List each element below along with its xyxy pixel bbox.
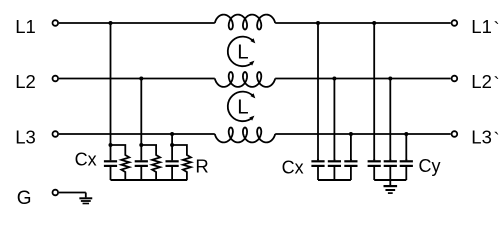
terminal L2 input (open circle) — [53, 76, 59, 82]
wire L1 right segment — [275, 22, 451, 24]
wire L2 right segment — [275, 78, 451, 80]
wire tap from L1 to Cy cap 1 — [373, 23, 375, 160]
capacitor Cx1 (right group) — [317, 159, 319, 160]
svg-text:L: L — [237, 96, 248, 119]
svg-text:Cx: Cx — [282, 157, 304, 177]
wire tap from L2 to Cy cap 2 — [389, 79, 391, 161]
inductor L (line L1 winding) (coil, 4 humps) — [215, 15, 275, 30]
wire tap from L2 to RC node 2 — [140, 79, 142, 146]
svg-text:L3`: L3` — [471, 126, 499, 149]
wire L2 left segment — [59, 78, 215, 80]
node RC node 1 (junction dot) — [109, 143, 113, 147]
capacitor Cy3 — [405, 159, 407, 160]
wire right Cx bottom rail — [318, 179, 351, 181]
node on L1 line at x=110.5 (junction dot) — [109, 21, 113, 25]
node on L3 line at x=406.3 (junction dot) — [404, 132, 408, 136]
resistor R1 (discharge) (zigzag) — [111, 145, 130, 180]
node on L3 line at x=350.9 (junction dot) — [349, 132, 353, 136]
wire L3 right segment — [275, 133, 451, 135]
svg-text:L1`: L1` — [471, 16, 499, 39]
wire tap from L1 to right Cx cap 1 — [317, 23, 319, 160]
inductor L (line L2 winding) (coil, 4 humps) — [215, 72, 275, 87]
wire tap from L3 to RC node 3 — [171, 134, 173, 145]
node on L2 line at x=390.3 (junction dot) — [388, 77, 392, 81]
ground G earth — [79, 197, 92, 199]
terminal L2 output (open circle) — [452, 76, 458, 82]
capacitor Cx2 (right group) — [333, 159, 335, 160]
svg-text:Cx: Cx — [75, 150, 97, 170]
wire tap from L2 to right Cx cap 2 — [333, 79, 335, 161]
node on L1 line at x=318.0 (junction dot) — [316, 21, 320, 25]
terminal L3 input (open circle) — [53, 131, 59, 137]
wire left RC bottom rail — [111, 179, 188, 181]
svg-text:G: G — [17, 188, 32, 209]
inductance circle upper (arc with arrows and letter L) — [228, 37, 254, 67]
svg-text:L1: L1 — [15, 16, 36, 37]
wire L1 left segment — [59, 22, 215, 24]
svg-text:L2: L2 — [15, 71, 36, 92]
inductance circle lower (arc with arrows and letter L) — [228, 92, 254, 122]
terminal L1 input (open circle) — [53, 20, 59, 26]
node on L3 line at x=172.1 (junction dot) — [170, 132, 174, 136]
capacitor Cx2 (left X-cap) — [140, 145, 142, 160]
node RC node 3 (junction dot) — [170, 143, 174, 147]
capacitor Cx3 (right group) — [350, 159, 352, 160]
resistor R3 (discharge) (zigzag) — [172, 145, 191, 180]
terminal L3 output (open circle) — [452, 131, 458, 137]
wire tap from L3 to right Cx cap 3 — [350, 134, 352, 160]
svg-text:L: L — [237, 41, 248, 64]
capacitor Cx3 (left X-cap) — [171, 145, 173, 160]
wire Cy ground stub — [389, 180, 391, 185]
svg-text:L3: L3 — [15, 126, 36, 147]
node on L2 line at x=141.3 (junction dot) — [139, 77, 143, 81]
wire tap from L3 to Cy cap 3 — [405, 134, 407, 160]
capacitor Cx1 (left X-cap) — [110, 145, 112, 160]
svg-text:R: R — [195, 156, 208, 177]
terminal L1 output (open circle) — [452, 20, 458, 26]
resistor R2 (discharge) (zigzag) — [141, 145, 160, 180]
terminal G input (open circle) — [53, 190, 59, 196]
node RC node 2 (junction dot) — [139, 143, 143, 147]
capacitor Cy2 — [389, 159, 391, 160]
inductor L (line L3 winding) (coil, 4 humps) — [215, 128, 275, 143]
node on L1 line at x=374.2 (junction dot) — [372, 21, 376, 25]
wire Cy bottom rail — [374, 179, 406, 181]
ground Cy earth — [384, 185, 398, 187]
wire G horizontal — [59, 192, 86, 194]
svg-text:L2`: L2` — [471, 71, 499, 94]
wire tap from L1 to RC node 1 — [110, 23, 112, 145]
svg-text:Cy: Cy — [419, 156, 441, 176]
wire L3 left segment — [59, 133, 215, 135]
wire G vertical to earth — [85, 193, 87, 198]
capacitor Cy1 — [373, 159, 375, 160]
node on L2 line at x=334.4 (junction dot) — [332, 77, 336, 81]
